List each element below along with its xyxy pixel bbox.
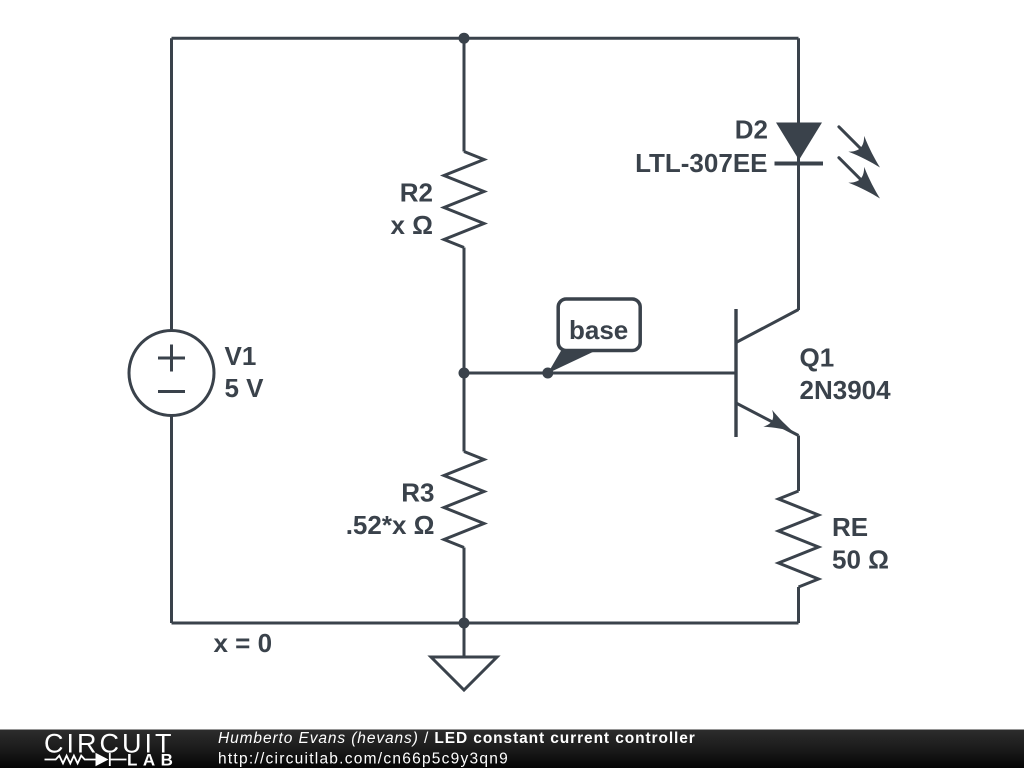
svg-text:base: base	[569, 315, 628, 345]
LED D2 triangle	[776, 123, 822, 161]
wire middle lower	[463, 548, 466, 624]
callout base	[548, 299, 640, 373]
svg-text:Humberto Evans (hevans) / LED: Humberto Evans (hevans) / LED constant c…	[218, 730, 696, 747]
wire top	[172, 37, 799, 40]
svg-text:x Ω: x Ω	[390, 210, 433, 240]
wire middle upper	[463, 38, 466, 151]
svg-text:x = 0: x = 0	[214, 628, 273, 658]
wire left upper	[170, 38, 173, 330]
wire collector	[797, 164, 800, 311]
resistor R3	[444, 452, 484, 548]
node junction top	[459, 33, 470, 44]
node base tap	[542, 368, 553, 379]
svg-text:.52*x Ω: .52*x Ω	[346, 510, 435, 540]
svg-text:R2: R2	[400, 178, 433, 208]
svg-text:V1: V1	[225, 341, 257, 371]
LED light arrow 1 line	[839, 127, 862, 150]
svg-text:D2: D2	[735, 115, 768, 145]
svg-text:LAB: LAB	[127, 751, 178, 768]
node bottom junction	[459, 618, 470, 629]
wire RE bottom	[797, 587, 800, 623]
svg-text:50 Ω: 50 Ω	[832, 545, 889, 575]
wire middle mid	[463, 248, 466, 452]
transistor Q1 emitter arrow	[763, 410, 797, 440]
wire left lower	[170, 416, 173, 624]
svg-text:LTL-307EE: LTL-307EE	[635, 148, 767, 178]
LED arrow 2 head	[848, 167, 888, 207]
svg-text:5 V: 5 V	[225, 373, 265, 403]
wire base	[464, 372, 736, 375]
resistor R2	[444, 152, 484, 248]
logo diode triangle	[96, 753, 109, 766]
logo resistor squiggle and diode	[45, 753, 127, 766]
wire bottom	[172, 622, 799, 625]
svg-text:Q1: Q1	[800, 343, 835, 373]
svg-text:http://circuitlab.com/cn66p5c9: http://circuitlab.com/cn66p5c9y3qn9	[218, 751, 509, 768]
resistor RE	[779, 491, 819, 587]
LED D2 cathode bar	[775, 162, 824, 166]
voltage source V1	[129, 331, 214, 416]
svg-text:R3: R3	[401, 478, 434, 508]
transistor Q1	[736, 309, 799, 437]
wire anode	[797, 38, 800, 163]
LED arrow 1 head	[848, 136, 888, 176]
svg-text:2N3904: 2N3904	[800, 375, 892, 405]
wire emitter	[797, 436, 800, 492]
footer bar	[0, 730, 1024, 768]
svg-text:RE: RE	[832, 512, 868, 542]
node base junction	[459, 368, 470, 379]
LED light arrow 2 line	[839, 158, 862, 181]
ground	[431, 623, 497, 690]
